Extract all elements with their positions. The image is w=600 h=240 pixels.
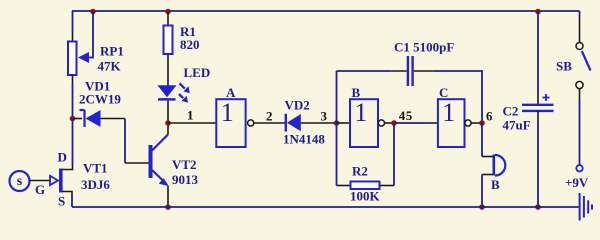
transistor VT1 channel bar — [59, 169, 63, 193]
svg-text:+9V: +9V — [565, 175, 589, 190]
svg-text:9013: 9013 — [172, 172, 199, 187]
svg-text:1: 1 — [221, 98, 234, 127]
op-amp gate C inverter box — [438, 99, 465, 147]
switch SB blade — [582, 51, 591, 71]
resistor RP1 potentiometer body — [68, 42, 77, 76]
terminal S input circle — [10, 171, 30, 191]
svg-text:LED: LED — [184, 65, 211, 80]
wire left vertical from top rail to RP1 — [72, 11, 74, 32]
resistor R1 body — [164, 26, 173, 55]
diode VD2 cathode bar — [285, 114, 287, 132]
pin C1 right — [414, 70, 434, 72]
diode VD1 zener cathode bar — [80, 110, 85, 127]
op-amp gate A inverter box — [216, 99, 245, 147]
svg-text:47uF: 47uF — [503, 118, 531, 133]
svg-text:S: S — [58, 194, 65, 209]
pin R2 right — [380, 185, 395, 187]
svg-text:47K: 47K — [98, 59, 122, 74]
pin LED bottom — [167, 101, 169, 123]
pin C1 left — [390, 70, 407, 72]
wire node45 down to R2 right — [393, 123, 395, 186]
transistor VT2 emitter arrowhead — [159, 178, 169, 186]
diode VD2 triangle — [287, 114, 301, 131]
wire node6 down to speaker — [481, 123, 483, 157]
svg-text:VT2: VT2 — [172, 157, 197, 172]
svg-text:A: A — [226, 85, 236, 100]
svg-text:s: s — [17, 174, 23, 189]
node junction dot 6 — [479, 120, 485, 126]
pin R1 bottom — [167, 54, 169, 81]
wire node3 to gate B input — [337, 122, 351, 124]
transistor VT2 emitter — [152, 170, 165, 182]
pin VD1 right — [101, 118, 126, 120]
wire C2 from top rail — [537, 12, 539, 94]
wire R1 to LED — [167, 81, 169, 87]
LED cathode bar — [158, 98, 176, 101]
wire top power rail — [72, 10, 580, 12]
wire node3 up to C1 feedback — [336, 71, 338, 123]
svg-text:820: 820 — [180, 37, 200, 52]
pin R1 top — [167, 12, 169, 26]
pin SB top — [579, 16, 581, 42]
pin R2 left — [337, 185, 351, 187]
svg-text:SB: SB — [556, 59, 572, 74]
node junction dot LED / gate A input — [165, 120, 171, 126]
wire speaker to bottom rail — [481, 175, 483, 208]
LED triangle — [158, 85, 177, 97]
svg-text:3: 3 — [321, 109, 328, 124]
LED arrow 2 — [179, 94, 183, 98]
pin RP1 top — [72, 32, 74, 42]
transistor VT1 gate arrow — [50, 176, 58, 185]
wire gate B output to gate C input — [385, 122, 395, 124]
pin VT1 drain — [62, 165, 73, 170]
wire top rail corner down to SB — [579, 11, 581, 16]
gate C output bubble — [465, 120, 471, 126]
switch SB top contact — [576, 43, 583, 50]
pin VT1 source — [62, 192, 72, 197]
speaker B dome — [495, 155, 505, 176]
node junction dot C2 bottom — [535, 204, 541, 210]
battery bar 3 — [587, 200, 589, 213]
node junction dot R1 top — [165, 9, 171, 15]
transistor VT2 collector — [152, 135, 168, 151]
svg-text:1N4148: 1N4148 — [283, 132, 325, 147]
battery bar 2 — [583, 196, 585, 218]
svg-text:C: C — [439, 85, 448, 100]
svg-text:1: 1 — [187, 108, 194, 123]
transistor VT2 base bar — [149, 145, 153, 178]
svg-text:5: 5 — [406, 108, 413, 123]
wire VT1 source to bottom rail — [71, 196, 73, 207]
node junction dot 3 — [334, 120, 340, 126]
pin speaker top — [482, 156, 493, 158]
svg-text:D: D — [58, 150, 67, 165]
wire node to gate A input — [168, 122, 216, 124]
gate B output bubble — [378, 120, 384, 126]
capacitor C1 left plate — [407, 56, 409, 86]
capacitor C2 top plate — [522, 104, 554, 106]
resistor R2 body — [351, 182, 380, 190]
svg-text:2CW19: 2CW19 — [79, 92, 121, 107]
wire bottom rail — [72, 206, 579, 208]
capacitor C1 right plate — [411, 56, 413, 86]
gate A output bubble — [248, 120, 254, 126]
svg-text:4: 4 — [399, 108, 406, 123]
terminal +9V circle — [576, 165, 582, 171]
svg-text:VD2: VD2 — [285, 98, 310, 113]
svg-text:3DJ6: 3DJ6 — [81, 177, 110, 192]
wire feedback left run to C1 — [337, 70, 391, 72]
wire gate C output to node 6 — [471, 122, 482, 124]
wire S to VT1 gate — [29, 180, 57, 182]
wire C2 to bottom rail — [537, 123, 539, 207]
wire VD2 to node 3 — [301, 122, 337, 124]
node junction dot VD1 anode — [70, 116, 76, 122]
wire gate A output to VD2 — [254, 122, 285, 124]
svg-text:1: 1 — [354, 98, 367, 127]
svg-text:G: G — [35, 182, 45, 197]
svg-text:RP1: RP1 — [100, 44, 124, 59]
pin C2 bottom — [537, 111, 539, 123]
svg-text:100K: 100K — [350, 189, 381, 204]
svg-text:C1 5100pF: C1 5100pF — [394, 40, 454, 55]
pin speaker bottom — [482, 174, 493, 176]
wire VD1-node down to VT1 drain — [72, 119, 74, 166]
svg-text:2: 2 — [266, 109, 273, 124]
speaker B bar — [493, 155, 496, 176]
pin RP1 bottom — [72, 75, 74, 83]
op-amp gate B inverter box — [350, 99, 378, 147]
svg-text:VT1: VT1 — [83, 161, 108, 176]
diode VD1 triangle — [86, 110, 101, 127]
resistor RP1 wiper arrow — [78, 52, 89, 63]
wire RP1 to VD1 node — [72, 83, 74, 119]
pin VT2 collector up — [167, 123, 169, 135]
svg-text:1: 1 — [442, 98, 455, 127]
wire RP1 wiper from top rail — [88, 12, 93, 58]
pin VT2 base stub — [125, 162, 149, 164]
svg-text:C2: C2 — [503, 104, 519, 119]
svg-text:B: B — [491, 177, 500, 192]
switch SB bottom contact — [576, 81, 583, 88]
pin SB bottom — [579, 89, 581, 100]
node junction dot emitter/bottom rail — [165, 204, 171, 210]
node junction dot 4/5 — [391, 120, 397, 126]
pin C2 top — [537, 93, 539, 104]
node junction dot C2 top — [535, 9, 541, 15]
capacitor C2 bottom plate — [522, 110, 554, 112]
node junction dot speaker/bottom rail — [479, 204, 485, 210]
pin VT2 emitter down — [167, 186, 169, 207]
svg-text:6: 6 — [486, 109, 493, 124]
wire SB to +9V terminal — [579, 100, 581, 165]
svg-text:R2: R2 — [352, 164, 368, 179]
node junction dot wiper/top-rail — [90, 9, 96, 15]
battery bar 1 — [579, 193, 581, 221]
capacitor C2 plus sign — [543, 94, 550, 101]
LED arrow 1 — [180, 83, 185, 88]
svg-text:B: B — [352, 85, 361, 100]
battery bar 4 — [591, 204, 593, 209]
wire feedback right run to node 6 — [434, 71, 482, 123]
pin VD1 left — [74, 118, 82, 120]
wire VD1 down to VT2 base — [124, 119, 126, 164]
wire node3 down to R2 left — [336, 123, 338, 186]
